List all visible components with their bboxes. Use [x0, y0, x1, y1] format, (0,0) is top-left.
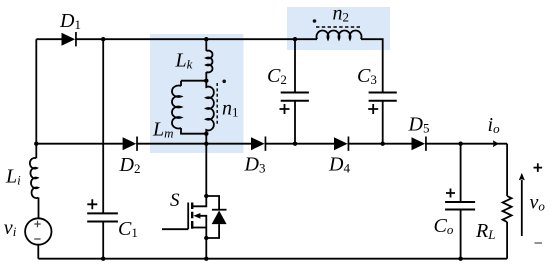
svg-text:S: S: [170, 190, 180, 211]
wire C2 branch: [294, 39, 296, 144]
vi minus sign: [34, 238, 40, 240]
n1 polarity dot: [222, 80, 226, 84]
winding n2: [316, 31, 361, 40]
n2 dashed polarity line: [316, 26, 362, 28]
node dot Lk Lm junction: [204, 79, 208, 83]
node dot C3 bottom: [381, 142, 385, 146]
C3 plus sign: [368, 104, 378, 114]
wire Co branch: [460, 144, 462, 259]
wire switch drain: [205, 144, 207, 196]
capacitor C1: [87, 213, 118, 221]
wire Lk to node: [205, 72, 207, 81]
wire node to switch row: [205, 134, 207, 144]
diode D1: [62, 32, 77, 46]
n1 dashed polarity line: [216, 83, 218, 125]
diode D2: [123, 137, 138, 151]
node dot switch row center: [204, 142, 208, 146]
wire left rail: [35, 39, 37, 144]
node dot C1 bottom: [101, 257, 105, 261]
diode D3: [251, 137, 266, 151]
diode D4: [334, 137, 349, 151]
capacitor Co: [445, 202, 475, 210]
source vi circle: [25, 218, 51, 244]
transistor S source lead: [192, 227, 206, 229]
transistor S drain lead: [192, 196, 206, 206]
node dot C2 top: [293, 37, 297, 41]
wire Li to vi: [38, 198, 40, 219]
diode D5: [412, 137, 427, 151]
transistor S bulk arrowhead: [193, 213, 200, 219]
node dot C2 bottom: [293, 142, 297, 146]
wire output right side down: [506, 144, 508, 196]
highlight box winding n2: [287, 7, 390, 50]
node dot Lk top: [204, 37, 208, 41]
C1 plus sign: [87, 199, 97, 209]
node dot Lm bottom junction: [204, 132, 208, 136]
wire left rail to Li: [35, 144, 37, 159]
node dot Co bottom: [458, 257, 462, 261]
highlight box coupled inductor Lk Lm n1: [150, 34, 244, 153]
transistor S gate bar: [187, 203, 189, 230]
wire parallel bottom: [181, 128, 206, 134]
vi plus sign: [34, 221, 40, 227]
inductor Lm: [172, 86, 181, 129]
node dot Co top: [458, 142, 462, 146]
resistor RL: [503, 196, 512, 222]
transistor S bulk lead: [200, 216, 206, 238]
Co plus sign: [446, 189, 455, 198]
wire bottom rail: [38, 258, 507, 260]
vo plus sign: [534, 163, 543, 172]
winding n1: [206, 81, 214, 134]
capacitor C3: [369, 93, 397, 101]
wire parallel top: [181, 81, 206, 86]
inductor Li: [30, 158, 39, 198]
transistor S channel bar: [191, 203, 193, 229]
node dot switch bottom: [204, 257, 208, 261]
wire Lk branch top: [205, 39, 207, 51]
node dot D1 cathode C1 top: [101, 37, 105, 41]
wire C3 lower branch: [382, 101, 384, 144]
body diode branch wires: [206, 196, 219, 238]
node dot source: [204, 236, 208, 240]
wire RL to bottom rail: [506, 222, 508, 259]
transistor S gate lead: [162, 228, 188, 230]
wire top bus: [36, 38, 317, 40]
vo minus sign: [535, 242, 543, 244]
n2 polarity dot: [313, 19, 317, 23]
vo arrowhead: [519, 173, 525, 180]
capacitor C2: [281, 93, 309, 101]
body diode cathode bar: [212, 209, 227, 211]
vo arrow line: [521, 180, 523, 236]
wire C1 branch vertical: [102, 39, 104, 259]
io current arrowhead: [493, 140, 499, 147]
body diode triangle: [212, 211, 227, 225]
inductor Lk: [206, 51, 212, 73]
C2 plus sign: [280, 104, 290, 114]
node dot input left: [34, 142, 38, 146]
wire middle bus: [36, 143, 507, 145]
node dot drain: [204, 194, 208, 198]
wire source to bottom: [205, 238, 207, 259]
wire vi to bottom rail: [37, 245, 39, 259]
wire n2 right to C3 top: [361, 39, 383, 92]
